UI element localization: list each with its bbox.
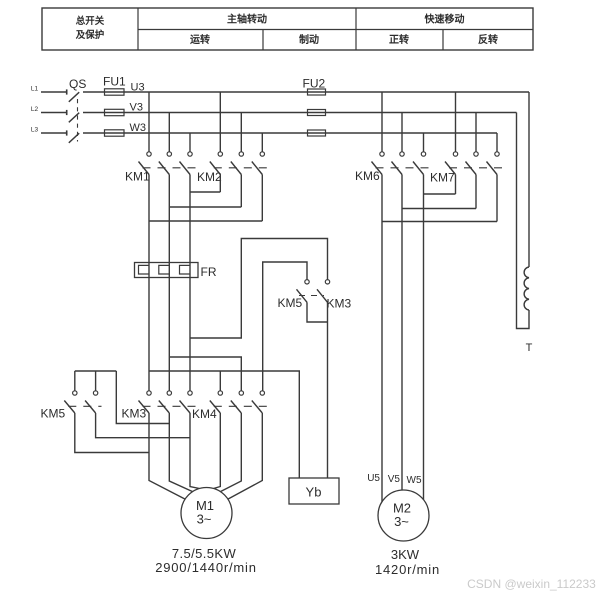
svg-text:V5: V5	[388, 474, 401, 485]
contactor contact KM4 pole3 lower	[260, 391, 264, 395]
contactor contact KM3 pole3 lower	[188, 391, 192, 395]
contactor KM5/KM3 middle linkage (dashed)	[299, 295, 324, 297]
contactor contact KM3 pole1 lower	[147, 391, 151, 395]
svg-text:KM7: KM7	[430, 171, 455, 185]
wire tie KM1.3-KM2.1	[190, 191, 220, 193]
wire KM7 pole3 output	[496, 175, 498, 222]
thermal relay FR heater 1	[139, 265, 150, 274]
wire feed to KM1 pole1	[148, 92, 150, 152]
svg-text:U3: U3	[131, 82, 145, 94]
svg-text:正转: 正转	[389, 33, 409, 46]
wire KM5 lower pole1 output to KM3 pole1 output	[75, 413, 149, 453]
fuse FU1 element 2	[105, 109, 125, 115]
table column divider 1	[137, 8, 139, 50]
wire feed to KM2 pole1	[219, 92, 221, 152]
wire KM7 pole2 output	[475, 175, 477, 209]
svg-text:总开关: 总开关	[76, 15, 105, 27]
wire L3 feed	[41, 132, 67, 134]
contactor contact KM2 pole3	[260, 152, 264, 156]
contactor KM6 linkage (dashed)	[376, 167, 430, 169]
svg-text:T: T	[526, 342, 533, 354]
wire feed to KM5 lower pole2	[95, 371, 97, 391]
wire KM1 pole2 output down to KM3	[168, 175, 170, 391]
contactor contact KM7 pole2	[474, 152, 478, 156]
svg-text:及保护: 及保护	[76, 29, 105, 41]
switch QS blade pole 1	[69, 92, 79, 102]
wire KM4 pole1 output down to motor M1	[214, 413, 221, 489]
svg-text:制动: 制动	[299, 33, 319, 46]
terminal tick L2	[66, 110, 68, 115]
wire feed to KM7 pole2	[475, 113, 477, 152]
contactor contact KM5 middle	[305, 280, 309, 284]
svg-text:FU1: FU1	[103, 75, 126, 89]
fuse FU1 element 3	[105, 130, 125, 136]
svg-text:L3: L3	[31, 127, 39, 134]
wire KM3 pole3 output down to motor M1	[190, 413, 200, 489]
wire transformer T bottom loop	[517, 113, 530, 329]
contactor KM1 linkage (dashed)	[143, 167, 197, 169]
svg-text:1420r/min: 1420r/min	[375, 562, 440, 577]
svg-text:2900/1440r/min: 2900/1440r/min	[155, 560, 257, 575]
terminal tick L3	[66, 130, 68, 135]
wire L2 feed	[41, 112, 67, 114]
wire feed to KM2 pole3	[261, 133, 263, 152]
contactor KM4 linkage (dashed)	[214, 405, 267, 407]
svg-text:CSDN @weixin_112233: CSDN @weixin_112233	[467, 577, 596, 591]
wire feed to KM1 pole3	[189, 133, 191, 152]
svg-text:KM6: KM6	[355, 169, 380, 183]
wire KM2 pole2 output	[240, 175, 242, 208]
wire KM3 pole2 output down to motor M1	[169, 413, 192, 492]
transformer T winding	[524, 267, 529, 310]
svg-text:运转: 运转	[190, 33, 210, 46]
contactor contact KM6 pole3	[421, 152, 425, 156]
fuse FU1 element 1	[105, 89, 125, 95]
thermal relay FR heater 2	[159, 265, 170, 274]
motor M2 body	[378, 490, 429, 541]
svg-text:KM3: KM3	[327, 297, 352, 311]
wire feed to KM6 pole2	[401, 113, 403, 152]
contactor contact KM3 middle	[325, 280, 329, 284]
svg-text:U5: U5	[367, 473, 380, 484]
svg-text:KM5: KM5	[41, 407, 66, 421]
wire KM5 lower bus	[75, 370, 117, 372]
fuse FU2 element 1	[308, 89, 326, 95]
wire branch down to KM4 pole1	[219, 371, 221, 391]
wire feed to KM7 pole1	[455, 92, 457, 152]
contactor contact KM6 pole1	[380, 152, 384, 156]
svg-text:KM1: KM1	[125, 170, 150, 184]
svg-text:L2: L2	[31, 106, 39, 113]
contactor contact KM4 pole1 lower	[218, 391, 222, 395]
wire KM3 pole1 output down to motor M1	[149, 413, 185, 499]
motor M1 body	[181, 488, 232, 539]
wire feed to KM6 pole1	[381, 92, 383, 152]
svg-text:主轴转动: 主轴转动	[227, 13, 267, 26]
wire KM6 pole3 output down to M2 (W5)	[423, 175, 425, 500]
contactor KM2 linkage (dashed)	[214, 167, 267, 169]
svg-text:FR: FR	[201, 265, 217, 279]
contactor contact KM2 pole1	[218, 152, 222, 156]
wire L1 feed	[41, 91, 67, 93]
svg-text:3~: 3~	[394, 514, 409, 529]
svg-text:3KW: 3KW	[391, 547, 420, 562]
wire KM7 pole1 output	[455, 175, 457, 195]
contactor contact KM1 pole3	[188, 152, 192, 156]
wire bus U3 drop to transformer T	[528, 92, 530, 267]
contactor contact KM7 pole3	[495, 152, 499, 156]
svg-text:7.5/5.5KW: 7.5/5.5KW	[172, 546, 237, 561]
wire KM5 lower pole2 output to KM3 pole3 output	[96, 413, 190, 438]
wire feed to KM1 pole2	[168, 113, 170, 152]
thermal relay FR body	[135, 263, 199, 278]
contactor contact KM2 pole2	[239, 152, 243, 156]
table column divider 3	[355, 8, 357, 50]
wire KM6 pole1 output down to M2 (U5)	[381, 175, 383, 502]
contactor contact KM3 pole2 lower	[167, 391, 171, 395]
brake coil Yb body	[289, 478, 339, 504]
contactor KM3 lower linkage (dashed)	[143, 405, 197, 407]
contactor contact KM4 pole2 lower	[239, 391, 243, 395]
wire tie KM6.2-KM7.2	[402, 208, 476, 210]
svg-text:Yb: Yb	[306, 485, 322, 500]
switch QS blade pole 2	[69, 113, 79, 123]
contactor contact KM1 pole1	[147, 152, 151, 156]
wire bus W3 (line 3)	[83, 132, 497, 134]
wire KM2 pole1 output	[219, 175, 221, 193]
svg-text:L1: L1	[31, 86, 39, 93]
contactor KM5 lower linkage (dashed)	[68, 405, 101, 407]
svg-text:快速移动: 快速移动	[424, 13, 465, 26]
switch QS blade pole 3	[69, 133, 79, 143]
table row divider	[138, 29, 533, 31]
contactor contact KM6 pole2	[400, 152, 404, 156]
wire bus U3 (line 1)	[83, 91, 529, 93]
thermal relay FR heater 3	[180, 265, 191, 274]
wire KM2 pole3 output	[261, 175, 263, 222]
wire tie KM1.1-KM2.3	[149, 220, 262, 222]
wire KM1 pole1 output down to KM3	[148, 175, 150, 391]
fuse FU2 element 2	[308, 110, 326, 116]
wire feed to KM2 pole2	[240, 113, 242, 152]
wire node V branch to KM4 pole2	[169, 357, 241, 391]
wire feed to KM7 pole3	[496, 133, 498, 152]
wire KM6 pole2 output down to M2 (V5)	[401, 175, 403, 491]
wire bus V3 (line 2)	[83, 112, 517, 114]
wire KM5 middle output	[307, 302, 328, 322]
wire node U branch to KM4 pole1 and Yb	[149, 371, 299, 478]
contactor contact KM5 lower pole2	[93, 391, 97, 395]
table frame	[42, 8, 533, 50]
wire KM4 pole2 output down to motor M1	[220, 413, 241, 492]
svg-text:KM2: KM2	[197, 170, 222, 184]
contactor contact KM7 pole1	[453, 152, 457, 156]
table column divider 4	[442, 30, 444, 51]
svg-text:KM3: KM3	[122, 407, 147, 421]
table column divider 2	[262, 30, 264, 51]
wire tie KM1.2-KM2.2	[169, 206, 241, 208]
svg-text:KM5: KM5	[278, 296, 303, 310]
contactor contact KM1 pole2	[167, 152, 171, 156]
contactor contact KM5 lower pole1	[73, 391, 77, 395]
wire node W branch to middle KM3 contact	[190, 239, 328, 339]
fuse FU2 element 3	[308, 130, 326, 136]
terminal tick L1	[66, 89, 68, 94]
wire KM5 bus link to KM3 pole2 output	[116, 371, 169, 424]
wire KM4 pole3 output down to motor M1	[228, 413, 262, 499]
svg-text:QS: QS	[69, 77, 86, 91]
contactor KM7 linkage (dashed)	[449, 167, 503, 169]
svg-text:3~: 3~	[197, 512, 212, 527]
svg-text:KM4: KM4	[192, 407, 217, 421]
wire KM3 middle output down to Yb	[327, 302, 329, 478]
wire feed to KM5 lower pole1	[74, 371, 76, 391]
wire tie KM6.1-KM7.3	[382, 221, 497, 223]
wire KM1 pole3 output down to KM3	[189, 175, 191, 391]
svg-text:W3: W3	[130, 122, 147, 134]
svg-text:V3: V3	[130, 102, 143, 114]
svg-text:W5: W5	[407, 475, 422, 486]
wire feed to middle KM5 contact	[263, 262, 307, 391]
wire feed to KM6 pole3	[423, 133, 425, 152]
switch QS linkage (dashed)	[77, 99, 79, 142]
wire tie KM6.3-KM7.1	[424, 193, 456, 195]
svg-text:反转: 反转	[478, 33, 498, 46]
